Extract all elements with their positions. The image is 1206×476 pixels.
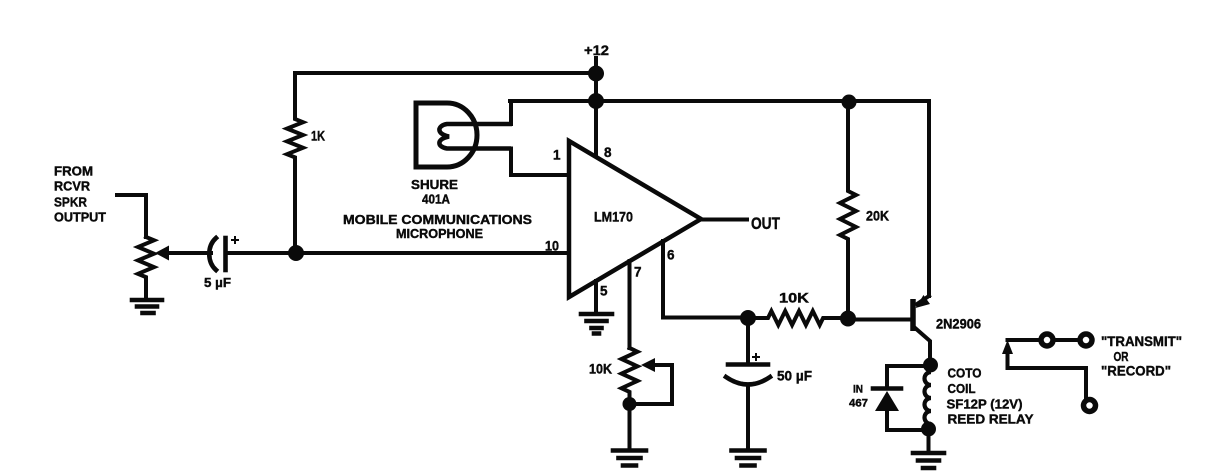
wire 50uF capacitor C2 [726,318,812,449]
svg-text:IN: IN [853,384,863,396]
junction dot1 +12 [588,66,604,82]
wire relay to ground [927,429,931,451]
wire pin 7 [628,261,632,348]
label FROM RCVR SPKR OUTPUT [54,164,106,225]
svg-text:COIL: COIL [948,381,976,396]
diode D1 IN467 [849,366,924,430]
label SHURE 401A [411,177,458,207]
svg-text:5 µF: 5 µF [204,275,231,290]
svg-text:401A: 401A [422,192,451,207]
wire signal to pin 10 [296,251,569,255]
svg-text:SHURE: SHURE [411,177,458,192]
label TRANSMIT OR RECORD [1101,334,1182,379]
svg-text:8: 8 [604,145,612,160]
svg-text:2N2906: 2N2906 [936,316,981,332]
wire pot to ground [628,404,632,449]
svg-text:467: 467 [849,398,868,410]
resistor R4 20K [840,102,889,319]
resistor R1 1K [287,73,325,253]
wire input from label to pot [117,195,146,237]
svg-text:OUT: OUT [751,214,780,233]
node junction cap/1K/pin10 [288,245,304,261]
svg-text:FROM: FROM [54,164,93,179]
junction dot7 relay bottom [921,422,936,437]
wire pin 6 to dot4 [663,241,748,318]
resistor R3 10K horizontal [748,290,841,326]
potentiometer R2 10K [589,348,672,404]
ground relay [913,453,944,468]
svg-text:1: 1 [553,148,561,163]
junction dot2 [588,93,604,109]
svg-text:"RECORD": "RECORD" [1101,364,1171,379]
ground 10K pot [613,451,646,466]
svg-text:10: 10 [545,239,559,254]
ground op-amp pin 5 [581,314,612,334]
junction dot3 20K top [842,95,857,110]
junction dot pot bottom [623,397,637,411]
wire pin 8 [594,101,598,156]
op-amp U1 LM170 [545,141,701,299]
svg-text:1K: 1K [311,128,325,144]
svg-text:RCVR: RCVR [54,179,91,194]
svg-text:OUTPUT: OUTPUT [54,210,106,225]
junction dot4 [740,310,756,326]
reed switch contacts [1002,334,1096,412]
transistor Q1 2N2906 [913,295,981,358]
relay coil [925,365,932,429]
svg-text:LM170: LM170 [594,209,633,225]
svg-text:SPKR: SPKR [54,195,88,210]
wire output pin and OUT label [701,214,780,233]
ground 50uF [732,451,765,466]
capacitor C1 5uF [204,236,290,290]
svg-text:MICROPHONE: MICROPHONE [396,226,483,241]
junction dot6 collector [923,358,938,373]
svg-text:+12: +12 [584,42,609,58]
+12 supply [584,42,609,73]
wire dot1 to dot2 [594,73,598,101]
svg-text:50 µF: 50 µF [777,369,812,384]
junction dot5 [840,311,856,327]
svg-text:"TRANSMIT": "TRANSMIT" [1101,334,1182,349]
svg-text:6: 6 [667,248,675,263]
svg-text:10K: 10K [779,290,809,306]
svg-text:COTO: COTO [948,366,982,381]
label MOBILE COMMUNICATIONS MICROPHONE [343,212,532,241]
svg-text:MOBILE COMMUNICATIONS: MOBILE COMMUNICATIONS [343,212,532,227]
microphone SHURE 401A symbol [416,101,569,175]
ground input pot [132,300,162,313]
wire top rail [295,71,596,75]
svg-text:7: 7 [634,265,642,280]
svg-text:5: 5 [600,284,608,299]
svg-text:REED RELAY: REED RELAY [948,412,1034,427]
svg-text:10K: 10K [589,362,612,377]
svg-text:20K: 20K [866,208,889,224]
wire base [848,318,911,322]
label COTO COIL SF12P REED RELAY [947,366,1034,427]
svg-text:OR: OR [1114,349,1129,364]
potentiometer input level [138,237,211,299]
svg-text:SF12P (12V): SF12P (12V) [947,397,1023,412]
wire pin 5 to ground [594,281,598,312]
wire rail2 to transistor collector drop [510,101,929,296]
